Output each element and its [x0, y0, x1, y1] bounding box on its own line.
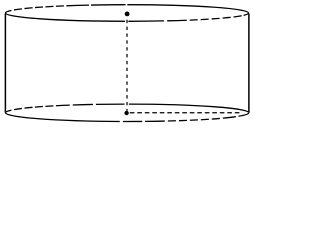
dashed radius of bottom ellipse	[130, 112, 241, 114]
bottom ellipse lower (front) arc: solid left half, dashed right half	[6, 113, 249, 122]
top ellipse lower arc (solid left half, dashed right half)	[6, 13, 249, 21]
left side of cylinder	[4, 14, 6, 113]
dot at bottom ellipse center	[124, 111, 128, 115]
right side of cylinder	[248, 14, 250, 113]
dot at top ellipse center	[125, 12, 130, 17]
dashed axis from top center to bottom center	[126, 20, 128, 111]
bottom ellipse upper (back) arc: dashed left half, solid right half	[6, 104, 249, 113]
top ellipse upper arc (dashed left half, solid right half)	[6, 5, 249, 13]
